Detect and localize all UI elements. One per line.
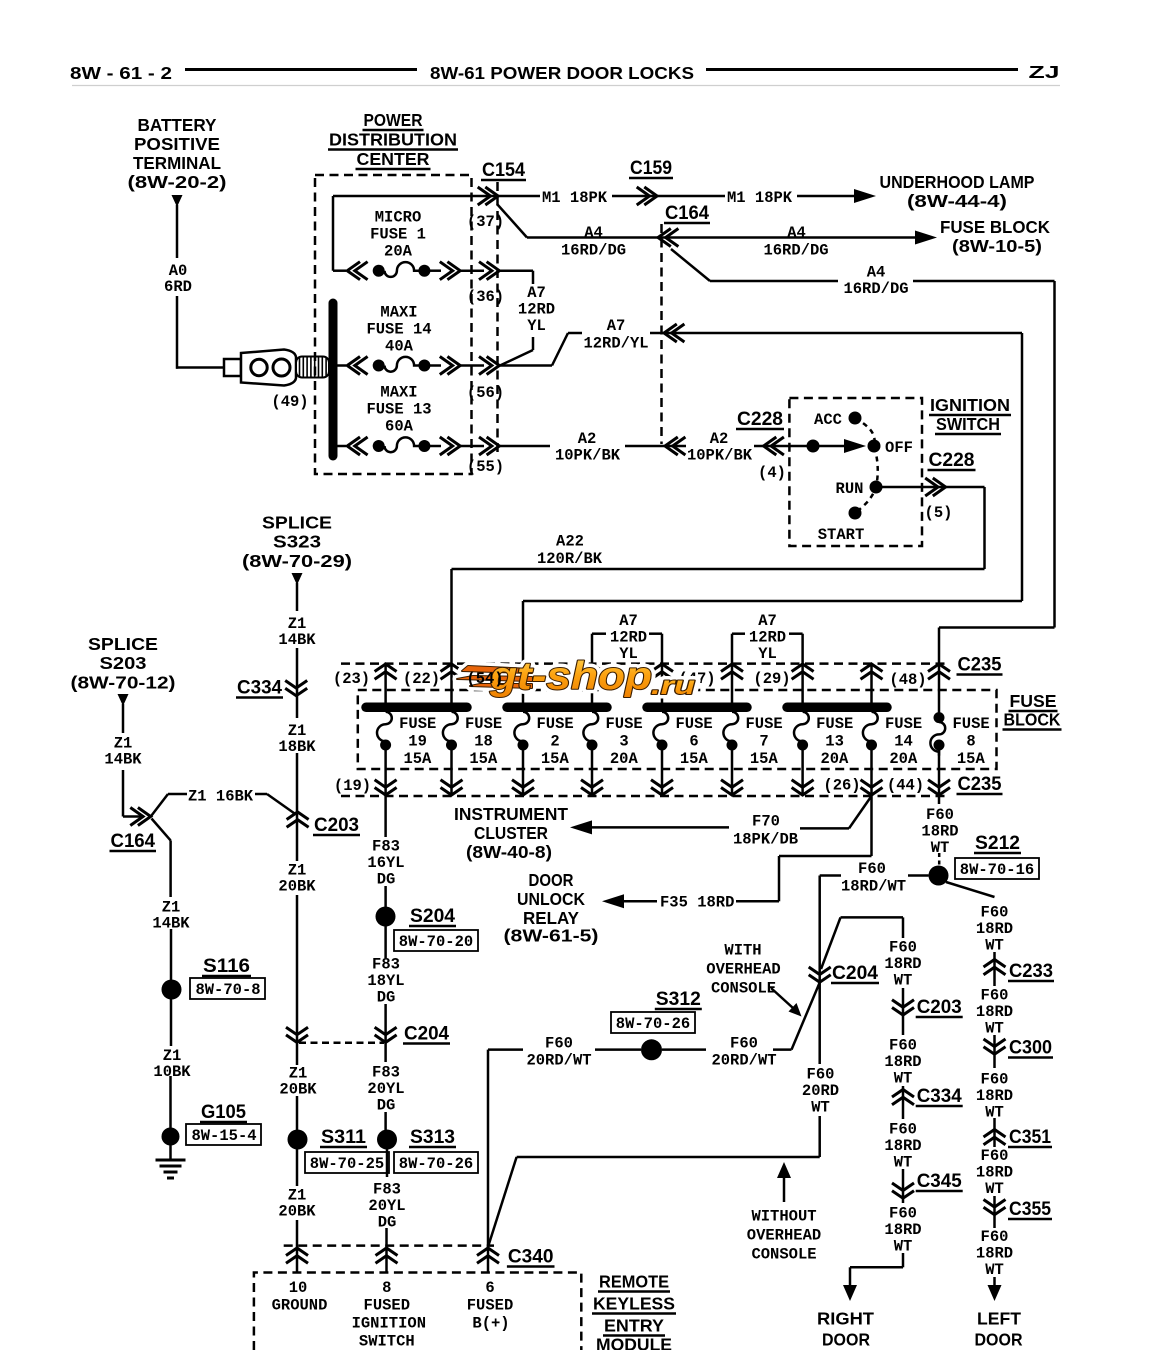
svg-text:(8W-10-5): (8W-10-5) — [952, 236, 1042, 256]
svg-text:M1 18PK: M1 18PK — [727, 189, 793, 207]
wire A7 down to fuse block cavity 54 — [522, 601, 525, 665]
wire Z1 14BK upper — [122, 704, 125, 733]
svg-text:C345: C345 — [917, 1171, 962, 1192]
wire A7 diagonal join to fuse14 output — [500, 350, 533, 366]
connector C204 dashed line — [299, 1042, 384, 1045]
wire Z1 20BK b — [296, 895, 299, 1043]
connector C340 chevron pin 10 — [286, 1248, 308, 1263]
wire F83 to C340 — [385, 1228, 388, 1273]
svg-text:WT: WT — [985, 1261, 1004, 1279]
svg-text:120R/BK: 120R/BK — [537, 550, 603, 568]
fuse F18 bottom terminal dot — [446, 740, 457, 751]
svg-text:IGNITION: IGNITION — [352, 1315, 426, 1333]
fuse block bus bar 1 — [366, 703, 467, 713]
svg-text:8W-70-26: 8W-70-26 — [616, 1015, 690, 1033]
wire F60 right door vertical 3 — [902, 1086, 905, 1119]
wire F60 diagonal to C340 — [489, 1157, 517, 1245]
header rule right — [706, 68, 1018, 71]
ground symbol G105 — [156, 1159, 186, 1162]
svg-text:WT: WT — [894, 1154, 913, 1172]
splice S116 dot — [162, 980, 182, 1000]
svg-text:F83: F83 — [372, 838, 400, 856]
svg-text:F60: F60 — [981, 904, 1009, 922]
svg-text:(23): (23) — [333, 670, 370, 688]
svg-text:18PK/DB: 18PK/DB — [733, 831, 798, 849]
svg-text:C203: C203 — [917, 997, 962, 1018]
fuse F14 right terminal dot — [418, 360, 430, 372]
svg-text:DG: DG — [377, 1097, 396, 1115]
wire A7 label to diagonal — [532, 337, 535, 350]
svg-text:(8W-70-12): (8W-70-12) — [71, 673, 176, 693]
wire A2 10PK/BK segment 1 — [499, 445, 550, 448]
A7 bracket ticks second — [732, 632, 745, 635]
connector C300 chevron — [984, 1039, 1006, 1054]
ignition switch feed junction dot — [807, 440, 820, 453]
wire Z1 20BK d — [296, 1096, 299, 1130]
wire F60 left vertical to C340 — [487, 1050, 490, 1248]
fuse F1 right chevron — [440, 262, 460, 280]
fuse F1 right terminal dot — [418, 265, 430, 277]
svg-text:RUN: RUN — [836, 480, 864, 498]
fuse F13 bottom terminal dot — [797, 740, 808, 751]
svg-text:14BK: 14BK — [104, 751, 142, 769]
svg-text:GROUND: GROUND — [272, 1297, 328, 1315]
svg-text:POWER: POWER — [364, 110, 423, 130]
left door arrow — [988, 1285, 1002, 1301]
svg-text:18RD: 18RD — [976, 1164, 1013, 1182]
svg-text:18RD: 18RD — [976, 1087, 1013, 1105]
wire F60 left door vertical 2 — [993, 1035, 996, 1068]
wire F35 horizontal — [779, 855, 872, 858]
fuse F13 right terminal dot — [418, 440, 430, 452]
fuse F19 wire from top connector to bus — [384, 664, 387, 704]
fuse F13 element — [385, 437, 419, 452]
wire F35 vertical — [778, 856, 781, 901]
connector C164 dashed line — [660, 224, 663, 444]
svg-text:WT: WT — [811, 1099, 830, 1117]
svg-text:DOOR: DOOR — [529, 870, 574, 890]
fuse F8 top terminal dot — [934, 712, 945, 723]
arrow to fuse block 8W-10-5 — [915, 231, 937, 245]
connector C154 cavity 36 chevron — [479, 262, 499, 280]
svg-text:6: 6 — [689, 733, 698, 751]
svg-text:DOOR: DOOR — [975, 1330, 1023, 1350]
svg-text:F60: F60 — [981, 1228, 1009, 1246]
wire Z1 14BK to S116 — [169, 840, 172, 897]
fuse F18 element — [443, 712, 458, 746]
connector C351 chevron — [984, 1130, 1006, 1145]
fuse block column 5 top chevron — [651, 664, 673, 679]
fuse block bus bar 3 — [647, 703, 747, 713]
svg-text:WITHOUT: WITHOUT — [751, 1208, 816, 1226]
connector C340 chevron pin 8 — [376, 1248, 398, 1263]
fuse block column 4 bottom chevron — [581, 780, 603, 795]
wire branch diagonal to right door column — [821, 917, 841, 969]
wire F83 20YL DG upper — [384, 1043, 387, 1062]
fuse block column 8 wire to bottom connector — [870, 750, 873, 796]
fuse F13 wire from top connector to bus — [801, 664, 804, 704]
wire F35 18RD segment 1 — [624, 900, 657, 903]
svg-text:C355: C355 — [1009, 1199, 1051, 1220]
svg-text:SWITCH: SWITCH — [359, 1333, 415, 1350]
svg-text:C228: C228 — [737, 409, 783, 430]
wire A22 down to fuse block cavity 22 — [450, 569, 453, 665]
wire A7 12RD/YL rise diagonal — [552, 333, 568, 366]
fuse block column 8 top chevron — [861, 664, 883, 679]
svg-text:F60: F60 — [926, 806, 954, 824]
wire Z1 14BK branch diagonal down — [152, 819, 171, 841]
connector C228 cavity 4 chevron — [764, 437, 784, 455]
wire F60 right door vertical 2 — [902, 988, 905, 1035]
svg-text:G105: G105 — [201, 1102, 246, 1123]
svg-text:15A: 15A — [469, 750, 498, 768]
svg-text:18RD: 18RD — [976, 920, 1013, 938]
svg-text:20A: 20A — [820, 750, 849, 768]
wire A4 third segment 1 — [710, 280, 838, 283]
svg-text:16RD/DG: 16RD/DG — [763, 242, 828, 260]
svg-text:S313: S313 — [410, 1127, 455, 1148]
wire fused B+ to C340 — [487, 1248, 490, 1273]
svg-text:8W - 61 - 2: 8W - 61 - 2 — [70, 63, 172, 83]
wire M1 18PK segment 2 — [612, 195, 725, 198]
wire M1 18PK segment 4 — [797, 195, 855, 198]
fuse F7 bottom terminal dot — [727, 740, 738, 751]
svg-text:15A: 15A — [750, 750, 779, 768]
svg-text:SPLICE: SPLICE — [262, 513, 332, 533]
fuse F14 wire from top connector to bus — [870, 664, 873, 704]
svg-text:10BK: 10BK — [153, 1063, 191, 1081]
svg-text:C228: C228 — [929, 450, 975, 471]
wire F60 right door vertical 4 — [902, 1169, 905, 1203]
wire F13 output to C154 — [460, 445, 484, 448]
svg-text:18RD/WT: 18RD/WT — [841, 878, 906, 896]
svg-text:(5): (5) — [925, 504, 953, 522]
splice S204 reference box — [394, 930, 478, 951]
svg-text:DG: DG — [377, 989, 396, 1007]
svg-text:19: 19 — [408, 733, 427, 751]
fuse block column 2 top chevron — [441, 664, 463, 679]
ignition switch feed wire — [819, 445, 849, 448]
svg-text:FUSED: FUSED — [467, 1297, 514, 1315]
wire A7 12RD/YL out of C154 — [499, 364, 552, 367]
svg-text:A7: A7 — [619, 612, 638, 630]
svg-text:WT: WT — [985, 1180, 1004, 1198]
fuse block column 5 wire to bottom connector — [661, 750, 664, 796]
svg-text:(4): (4) — [758, 464, 786, 482]
svg-text:(56): (56) — [467, 384, 504, 402]
svg-text:S203: S203 — [100, 653, 147, 673]
svg-text:40A: 40A — [385, 338, 414, 356]
fuse block column 7 wire to bottom connector — [801, 750, 804, 796]
svg-text:F35 18RD: F35 18RD — [660, 894, 734, 912]
svg-text:F60: F60 — [889, 1121, 917, 1139]
watermark gt-shop.ru — [457, 655, 695, 700]
wire Z1 20BK c — [296, 1043, 299, 1065]
svg-text:gt-shop: gt-shop — [489, 655, 652, 698]
splice S312 dot — [641, 1039, 662, 1060]
fuse block column 1 wire to bottom connector — [384, 750, 387, 796]
svg-text:FUSE: FUSE — [537, 715, 574, 733]
svg-text:FUSE: FUSE — [1010, 691, 1057, 711]
wire F83 18YL DG upper — [384, 926, 387, 958]
svg-text:IGNITION: IGNITION — [930, 395, 1010, 415]
wire F60 below C204 to label — [818, 982, 821, 1064]
connector C164 chevron on A2 — [665, 437, 685, 455]
svg-text:ACC: ACC — [814, 411, 842, 429]
ground G105 dot — [162, 1128, 180, 1146]
svg-text:CENTER: CENTER — [357, 149, 430, 169]
wire F60 below fuse 8 — [938, 796, 941, 804]
svg-text:8W-15-4: 8W-15-4 — [191, 1127, 256, 1145]
svg-text:8W-61 POWER DOOR LOCKS: 8W-61 POWER DOOR LOCKS — [430, 63, 694, 83]
wire right door horizontal — [841, 916, 904, 919]
battery feed pointer arrow — [172, 195, 183, 207]
ground G105 reference box — [186, 1124, 261, 1145]
svg-text:UNDERHOOD LAMP: UNDERHOOD LAMP — [880, 172, 1035, 192]
fuse F1 left terminal dot — [373, 265, 385, 277]
fuse F19 bottom terminal dot — [380, 740, 391, 751]
fuse block column 9 top chevron — [928, 664, 950, 679]
svg-text:S311: S311 — [321, 1127, 366, 1148]
svg-text:FUSE: FUSE — [816, 715, 853, 733]
connector C203 chevron left column — [287, 812, 309, 827]
wire F60 left door vertical 4 — [993, 1196, 996, 1228]
fuse block column 2 bottom chevron — [441, 780, 463, 795]
wire to ground symbol — [169, 1144, 172, 1159]
splice S313 reference box — [394, 1152, 478, 1173]
svg-text:WITH: WITH — [724, 942, 761, 960]
wire A0 to terminal — [176, 366, 224, 369]
svg-text:WT: WT — [985, 937, 1004, 955]
svg-text:C203: C203 — [314, 815, 359, 836]
fuse F6 wire from top connector to bus — [661, 664, 664, 704]
wire Z1 16BK segment 2 — [255, 793, 267, 796]
svg-text:8: 8 — [966, 733, 975, 751]
svg-text:A7: A7 — [527, 284, 546, 302]
svg-text:20BK: 20BK — [279, 1081, 317, 1099]
connector C164 chevron on A7 — [664, 324, 684, 342]
fuse block column 9 bottom chevron — [928, 780, 950, 795]
without overhead console arrow — [777, 1162, 791, 1178]
fuse F14 wire to chevron — [429, 364, 441, 367]
arrow into instrument cluster — [570, 820, 592, 834]
svg-text:18RD: 18RD — [976, 1245, 1013, 1263]
svg-text:14BK: 14BK — [278, 631, 316, 649]
svg-text:F83: F83 — [372, 956, 400, 974]
splice S204 dot — [376, 907, 396, 927]
remote keyless entry module dashed box — [254, 1273, 581, 1350]
svg-text:C154: C154 — [482, 160, 525, 181]
svg-text:KEYLESS: KEYLESS — [593, 1294, 675, 1314]
svg-text:INSTRUMENT: INSTRUMENT — [454, 804, 568, 824]
right door arrow — [843, 1285, 857, 1301]
fuse F3 bottom terminal dot — [587, 740, 598, 751]
svg-text:FUSE: FUSE — [885, 715, 922, 733]
fuse F13 row wire from bus — [336, 445, 346, 448]
svg-text:20A: 20A — [610, 750, 639, 768]
fuse block column 3 top chevron — [512, 664, 534, 679]
svg-text:F83: F83 — [373, 1181, 401, 1199]
fuse block column 6 top chevron — [721, 664, 743, 679]
svg-text:REMOTE: REMOTE — [599, 1272, 669, 1292]
svg-text:8W-70-20: 8W-70-20 — [399, 933, 473, 951]
svg-text:M1 18PK: M1 18PK — [542, 189, 608, 207]
fuse F18 wire from top connector to bus — [450, 664, 453, 704]
splice S203 pointer arrow — [118, 694, 129, 706]
wire F60 left door vertical 1 — [993, 952, 996, 986]
svg-text:(54): (54) — [466, 670, 503, 688]
fuse F2 wire from top connector to bus — [522, 664, 525, 704]
svg-text:OVERHEAD: OVERHEAD — [747, 1227, 821, 1245]
splice S212 reference box — [955, 858, 1039, 879]
svg-text:B(+): B(+) — [472, 1315, 509, 1333]
svg-text:(44): (44) — [887, 777, 924, 795]
connector C159 chevron — [637, 187, 657, 205]
fuse block bus bar 2 — [507, 703, 607, 713]
connector C204 chevron overhead console — [809, 967, 831, 982]
splice S312 reference box — [611, 1012, 695, 1033]
connector C164 lower chevron — [130, 808, 150, 826]
wire A4 third segment 2 — [913, 280, 1055, 283]
wire A7 fuse1 output corner down — [532, 271, 535, 284]
wire A7 down right side — [1021, 333, 1024, 601]
wire A4 down right side — [1053, 281, 1056, 628]
fuse F1 element — [385, 262, 419, 277]
power distribution center dashed box — [315, 175, 472, 474]
wire Z1 20BK f — [296, 1220, 299, 1273]
fuse block column 8 bottom chevron — [861, 780, 883, 795]
svg-text:DOOR: DOOR — [822, 1330, 870, 1350]
svg-text:FUSED: FUSED — [364, 1297, 411, 1315]
svg-text:2: 2 — [550, 733, 559, 751]
svg-text:18RD: 18RD — [884, 955, 921, 973]
wire A7 fuse1 output right — [499, 269, 533, 272]
svg-text:20YL: 20YL — [367, 1080, 404, 1098]
svg-text:20YL: 20YL — [368, 1197, 405, 1215]
svg-text:8: 8 — [382, 1279, 391, 1297]
wire F83 to S204 — [384, 886, 387, 907]
wire F60 without console vertical — [818, 1116, 821, 1157]
svg-text:18RD: 18RD — [884, 1221, 921, 1239]
svg-text:20A: 20A — [889, 750, 918, 768]
svg-text:UNLOCK: UNLOCK — [517, 889, 585, 909]
wire F60 left door vertical 3 — [993, 1118, 996, 1147]
svg-text:(29): (29) — [753, 670, 790, 688]
wire A4 diagonal from C154 — [497, 204, 527, 238]
svg-text:S116: S116 — [203, 956, 250, 977]
svg-text:F60: F60 — [730, 1035, 758, 1053]
wire F14 output to C154 — [460, 364, 484, 367]
svg-text:C340: C340 — [508, 1247, 554, 1268]
wire Z1 18BK lower — [296, 753, 299, 861]
svg-text:(36): (36) — [467, 288, 504, 306]
ignition switch contact arc dashed — [855, 418, 878, 513]
wire Z1 14BK lower — [122, 770, 125, 817]
fuse F14 right chevron — [440, 357, 460, 375]
svg-text:WT: WT — [894, 1238, 913, 1256]
connector C340 chevron pin 6 — [477, 1248, 499, 1263]
wire F70 18PK/DB horizontal — [592, 826, 729, 829]
wire F60 without console horizontal — [517, 1156, 820, 1159]
svg-text:(8W-40-8): (8W-40-8) — [466, 842, 552, 862]
wire F60 down to C204 — [818, 876, 821, 983]
wire F60 left door arrow stem — [993, 1277, 996, 1286]
connector C204 chevron left — [286, 1027, 308, 1042]
fuse F13 right chevron — [440, 437, 460, 455]
wire F35 segment 2 — [736, 900, 779, 903]
svg-text:C233: C233 — [1009, 961, 1053, 982]
svg-text:MAXI: MAXI — [380, 304, 417, 322]
connector C154 cavity 56 chevron — [479, 357, 499, 375]
svg-text:A4: A4 — [867, 264, 886, 282]
svg-text:C334: C334 — [237, 678, 282, 699]
svg-text:18RD: 18RD — [976, 1003, 1013, 1021]
svg-text:18RD: 18RD — [921, 823, 958, 841]
svg-text:18RD: 18RD — [884, 1137, 921, 1155]
wire A22 horizontal — [452, 568, 985, 571]
svg-text:WT: WT — [985, 1020, 1004, 1038]
fuse block column 5 bottom chevron — [651, 780, 673, 795]
fuse F7 wire from top connector to bus — [731, 664, 734, 704]
svg-text:13: 13 — [825, 733, 844, 751]
wire Z1 corner to C164 — [123, 815, 144, 818]
wire Z1 16BK segment — [168, 793, 187, 796]
wire M1 inside PDC vertical — [332, 196, 335, 271]
svg-text:8W-70-26: 8W-70-26 — [399, 1155, 473, 1173]
wire F35 up to fuse 14 output — [870, 796, 873, 856]
svg-text:A4: A4 — [787, 224, 806, 242]
svg-text:12RD: 12RD — [610, 629, 647, 647]
svg-text:14: 14 — [894, 733, 913, 751]
ignition switch wiper arrow — [844, 439, 866, 453]
wire Z1 16BK diagonal to C203 — [267, 794, 296, 815]
svg-text:A2: A2 — [578, 430, 597, 448]
wire A0 6RD vertical upper — [176, 205, 179, 258]
wire A4 16RD/DG run to C164 — [527, 236, 918, 239]
fuse F14 bottom terminal dot — [866, 740, 877, 751]
svg-text:F60: F60 — [807, 1066, 835, 1084]
svg-text:DISTRIBUTION: DISTRIBUTION — [329, 130, 457, 150]
svg-text:C334: C334 — [917, 1086, 962, 1107]
wire F60 left door diagonal from S212 — [946, 882, 995, 897]
wire A7 stub to fuse 6 — [661, 634, 664, 665]
fuse block column 7 bottom chevron — [792, 780, 814, 795]
wire F70 segment 2 — [800, 827, 849, 830]
svg-text:16YL: 16YL — [367, 854, 404, 872]
wire F60 20RD/WT segment 1 — [488, 1048, 523, 1051]
wire A4 down to fuse 8 — [938, 628, 941, 666]
svg-text:20RD: 20RD — [802, 1082, 839, 1100]
splice S323 pointer arrow — [292, 573, 303, 585]
svg-text:POSITIVE: POSITIVE — [134, 134, 220, 154]
connector C334 chevron right door — [892, 1090, 914, 1105]
svg-text:FUSE: FUSE — [953, 715, 990, 733]
svg-text:(55): (55) — [467, 458, 504, 476]
wire F60 segment 3 — [662, 1048, 706, 1051]
wire F60 dashes above S212 — [938, 853, 941, 867]
wire A2 segment 2 — [625, 445, 686, 448]
svg-text:A2: A2 — [710, 430, 729, 448]
ignition switch OFF contact dot — [868, 440, 881, 453]
fuse F3 wire from top connector to bus — [591, 664, 594, 704]
svg-text:CONSOLE: CONSOLE — [711, 980, 776, 998]
connector C233 chevron — [984, 960, 1006, 975]
svg-text:C159: C159 — [630, 158, 672, 179]
svg-text:SWITCH: SWITCH — [936, 414, 1000, 434]
svg-text:20A: 20A — [384, 243, 413, 261]
svg-text:(37): (37) — [467, 213, 504, 231]
svg-text:F60: F60 — [889, 939, 917, 957]
